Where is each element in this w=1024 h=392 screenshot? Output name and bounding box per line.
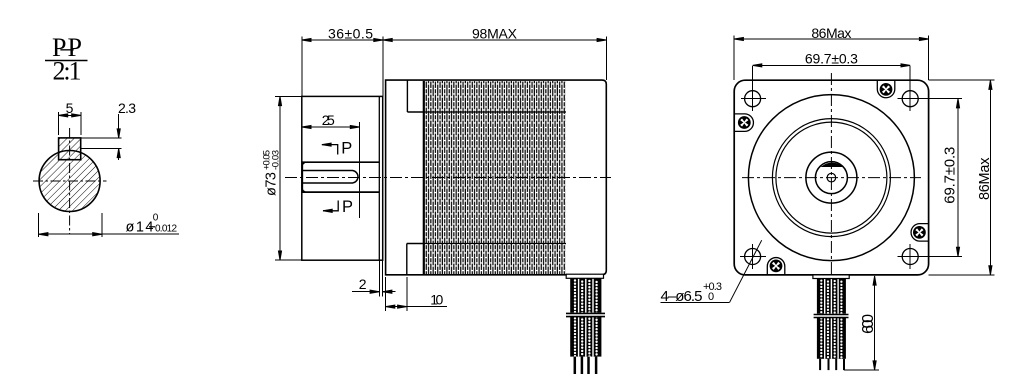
svg-text:P: P [341,140,352,158]
svg-text:25: 25 [322,112,335,128]
svg-text:0: 0 [153,213,159,224]
svg-text:ø14: ø14 [126,220,154,236]
svg-text:86Max: 86Max [977,157,993,200]
svg-text:69.7±0.3: 69.7±0.3 [941,147,958,204]
svg-text:2.3: 2.3 [118,100,136,116]
svg-text:2: 2 [359,276,367,292]
svg-text:69.7±0.3: 69.7±0.3 [805,51,858,67]
svg-text:98MAX: 98MAX [472,26,518,42]
svg-text:P: P [342,198,353,216]
svg-text:86Max: 86Max [811,25,851,41]
svg-text:5: 5 [66,100,74,116]
svg-text:0: 0 [708,291,714,303]
svg-text:0.012: 0.012 [155,224,177,235]
svg-text:ø73: ø73 [264,172,280,196]
svg-text:600: 600 [860,314,877,334]
svg-text:36±0.5: 36±0.5 [328,26,373,42]
svg-text:10: 10 [430,292,443,308]
